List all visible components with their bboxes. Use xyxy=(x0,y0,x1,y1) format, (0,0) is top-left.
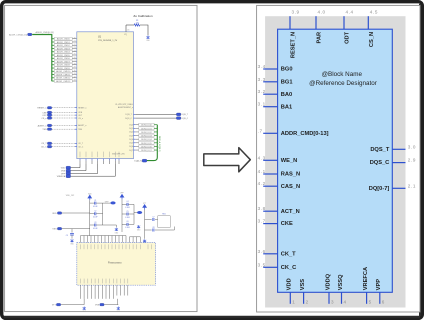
svg-text:Zo Calibration: Zo Calibration xyxy=(133,14,153,18)
svg-text:VDD_1V2: VDD_1V2 xyxy=(66,195,74,197)
wire VTT branch xyxy=(145,210,175,239)
svg-text:BA1: BA1 xyxy=(281,104,292,110)
pins U2 bottom stubs xyxy=(81,285,128,299)
svg-text:CAS_N: CAS_N xyxy=(281,184,300,190)
port DQ[0-7] xyxy=(134,159,146,162)
svg-text:DQ7: DQ7 xyxy=(129,150,133,152)
svg-text:0.1UF: 0.1UF xyxy=(125,217,130,219)
wire+port VPP (U1 bottom) xyxy=(61,164,98,175)
pin CKE (left) xyxy=(258,219,293,228)
wire U1 DQS_T to port xyxy=(125,113,188,116)
svg-text:C3: C3 xyxy=(94,222,96,224)
pin VPP (bottom) xyxy=(376,279,385,305)
svg-text:3.7: 3.7 xyxy=(258,219,266,224)
capacitor C7 xyxy=(152,216,154,221)
capacitor C5 xyxy=(125,211,130,219)
wire DDR4_DQ7 xyxy=(129,149,157,152)
rotated bottom pin names inside U1 xyxy=(80,152,119,158)
wire DDR4_DQ2 xyxy=(129,130,157,133)
op-amp/memory IC U1 (1TB_DDR4X8) xyxy=(77,32,134,159)
svg-text:ODT: ODT xyxy=(42,115,47,117)
svg-text:5: 5 xyxy=(369,300,372,305)
svg-text:VSS: VSS xyxy=(95,305,100,307)
svg-text:4.3: 4.3 xyxy=(258,155,266,160)
pin PAR (top) xyxy=(316,9,326,43)
port TEN and wire to U1 xyxy=(42,128,82,131)
wire U1 DQS_C to port xyxy=(125,117,188,120)
svg-text:C9: C9 xyxy=(66,235,68,237)
ground (bottom rail 2) xyxy=(117,307,121,314)
wire ADDR_CMD11 xyxy=(52,73,77,76)
wire DDR4_DQ6 xyxy=(129,145,157,148)
wire ADDR_CMD5 xyxy=(52,54,77,57)
svg-text:DDR_A_DQ[0-7]: DDR_A_DQ[0-7] xyxy=(158,136,161,152)
pin VDD (bottom) xyxy=(287,278,296,304)
svg-text:DDR4_DQ2: DDR4_DQ2 xyxy=(141,132,153,134)
svg-text:6: 6 xyxy=(382,300,385,305)
right panel xyxy=(257,5,420,312)
wire ladder-2 rails xyxy=(122,199,137,232)
svg-text:VDD: VDD xyxy=(61,168,66,170)
svg-text:DQS_T: DQS_T xyxy=(370,147,389,153)
svg-text:115: 115 xyxy=(127,29,130,31)
svg-text:DDR4_DQ0: DDR4_DQ0 xyxy=(141,125,153,127)
pin DQ[0-7] (right) xyxy=(369,183,416,192)
svg-text:4.4: 4.4 xyxy=(346,9,354,14)
svg-text:RESET_n: RESET_n xyxy=(78,108,86,110)
svg-text:CKE: CKE xyxy=(42,112,47,114)
port VPP (oval) xyxy=(105,201,116,204)
svg-text:TEN: TEN xyxy=(78,129,82,131)
svg-text:RESET_n: RESET_n xyxy=(37,108,47,110)
pin VREFCA (bottom) xyxy=(363,267,372,305)
svg-text:1: 1 xyxy=(292,300,295,305)
svg-text:TEN: TEN xyxy=(42,129,47,131)
pin DQS_C (right) xyxy=(370,158,416,167)
port CK_C and wire to U1 xyxy=(41,145,84,148)
wire ADDR_CMD0 xyxy=(52,37,77,40)
svg-text:CK_T: CK_T xyxy=(41,143,47,145)
wire DDR4_DQ4 xyxy=(129,138,157,141)
pins U1 bottom stubs xyxy=(80,159,119,164)
svg-text:DQS_T: DQS_T xyxy=(182,114,189,116)
svg-text:20: 20 xyxy=(74,37,76,39)
svg-text:VSS: VSS xyxy=(52,229,57,231)
wire ADDR_CMD10 xyxy=(52,70,77,73)
pin RAS_N (left) xyxy=(258,169,300,178)
capacitor C6 xyxy=(125,221,130,229)
pin CK_T (left) xyxy=(258,249,297,258)
svg-text:WE_N: WE_N xyxy=(281,158,297,164)
ground (ladder-1) xyxy=(115,228,119,235)
port ODT and wire to U1 xyxy=(42,114,83,117)
svg-text:DQS_C: DQS_C xyxy=(182,118,189,120)
port ADDR_CMD[0-13] (sheet input) xyxy=(9,33,32,36)
svg-text:C8: C8 xyxy=(152,227,154,229)
wire ADDR_CMD9 xyxy=(52,67,77,70)
power flag VTT xyxy=(143,203,147,210)
port VDD (decoupling, left) xyxy=(52,212,90,215)
svg-text:VSS: VSS xyxy=(61,171,66,173)
svg-text:BG0: BG0 xyxy=(281,67,293,73)
port VREF (oval) xyxy=(137,211,142,214)
rotated pin numbers inside U2 bottom xyxy=(81,279,128,284)
port VTT (bottom rail) xyxy=(52,299,84,307)
wire ADDR_CMD4 xyxy=(52,50,77,53)
capacitor C3 xyxy=(93,222,98,230)
svg-text:DQ6: DQ6 xyxy=(129,146,133,148)
block symbol @Block Name xyxy=(278,29,393,292)
rotated pin numbers inside U2 top xyxy=(81,244,152,249)
svg-text:CK_C: CK_C xyxy=(78,147,84,149)
svg-text:Pxxxxxxxxxx: Pxxxxxxxxxx xyxy=(108,261,122,264)
wire U1.ZQ to resistor xyxy=(126,24,134,26)
wire+port VDD (U1 bottom) xyxy=(61,164,80,170)
svg-text:VSSQ: VSSQ xyxy=(338,274,344,290)
port RESET_n and wire to U1 xyxy=(37,107,86,110)
svg-text:DQ[0-7]: DQ[0-7] xyxy=(134,161,142,163)
svg-text:0.1UF: 0.1UF xyxy=(93,206,98,208)
svg-text:ALERT_n: ALERT_n xyxy=(38,124,48,127)
svg-text:VTT: VTT xyxy=(143,203,146,205)
capacitor C8 xyxy=(152,227,154,232)
port VSS (decoupling, left) xyxy=(52,227,89,230)
svg-text:ADDR_CMD5: ADDR_CMD5 xyxy=(57,54,71,57)
svg-text:3.6: 3.6 xyxy=(258,249,266,254)
wire ADDR_CMD1 xyxy=(52,41,77,44)
svg-text:DQS_T: DQS_T xyxy=(125,114,132,116)
pin RESET_N (top) xyxy=(290,9,300,58)
svg-text:DQ2: DQ2 xyxy=(129,132,133,134)
wire green address bus xyxy=(32,35,52,82)
svg-text:ODT: ODT xyxy=(345,31,351,44)
svg-text:@Reference Designator: @Reference Designator xyxy=(309,80,377,87)
schematic sheet (gray) xyxy=(265,16,405,307)
svg-text:ADDR_CMD9: ADDR_CMD9 xyxy=(57,67,71,70)
svg-text:1TB_DDR4X8_1_2V: 1TB_DDR4X8_1_2V xyxy=(98,40,118,42)
svg-text:21: 21 xyxy=(74,41,76,43)
svg-text:CKE: CKE xyxy=(281,221,293,227)
wire DDR4_DQ1 xyxy=(129,127,157,130)
ground (Zo calibration) xyxy=(146,36,150,43)
port CS_n and wire to U1 xyxy=(41,117,83,120)
svg-text:3.0: 3.0 xyxy=(408,144,416,149)
svg-text:DDR4_DQ3: DDR4_DQ3 xyxy=(141,136,153,138)
pin VSS (bottom) xyxy=(300,279,309,305)
svg-text:ADDR_CMD[0-13]: ADDR_CMD[0-13] xyxy=(9,34,27,37)
svg-text:VL,VPD,VPP_STALL: VL,VPD,VPP_STALL xyxy=(115,103,133,106)
svg-text:28: 28 xyxy=(74,63,76,65)
svg-text:3: 3 xyxy=(331,300,334,305)
svg-text:ADDR_CMD[0-13]: ADDR_CMD[0-13] xyxy=(36,31,54,34)
pin DQS_T (right) xyxy=(370,144,416,153)
wire ADDR_CMD2 xyxy=(52,44,77,47)
svg-text:29: 29 xyxy=(74,67,76,69)
svg-text:31: 31 xyxy=(74,73,76,75)
svg-text:4.1: 4.1 xyxy=(258,169,266,174)
ground (VTT branch) xyxy=(143,239,147,246)
transformation arrow xyxy=(204,148,251,172)
svg-text:ADDR_CMD13: ADDR_CMD13 xyxy=(56,80,71,83)
svg-text:VDD: VDD xyxy=(52,213,57,215)
capacitor C1 xyxy=(93,200,98,208)
wire ADDR_CMD6 xyxy=(52,57,77,60)
wire ADDR_CMD3 xyxy=(52,47,77,50)
svg-text:CK_C: CK_C xyxy=(281,265,297,271)
resistor network box xyxy=(158,216,170,228)
left panel xyxy=(5,5,197,311)
svg-text:BA0: BA0 xyxy=(281,92,292,98)
svg-text:ADDR_CMD4: ADDR_CMD4 xyxy=(57,51,71,54)
svg-text:0.1UF: 0.1UF xyxy=(93,228,98,230)
wire DDR4_DQ3 xyxy=(129,134,157,137)
pin VSSQ (bottom) xyxy=(338,274,347,305)
resistor RZQ 240 ohm xyxy=(134,20,140,26)
svg-text:0.1UF: 0.1UF xyxy=(125,227,130,229)
svg-text:BG1: BG1 xyxy=(281,79,293,85)
svg-text:DQS_C: DQS_C xyxy=(125,118,132,120)
svg-text:ADDR_CMD10: ADDR_CMD10 xyxy=(56,70,71,73)
svg-text:3.4: 3.4 xyxy=(258,64,266,69)
svg-text:C2: C2 xyxy=(94,211,96,213)
wire+port VSS (U1 bottom) xyxy=(61,164,86,173)
capacitor C9 (left drop) xyxy=(71,229,73,233)
svg-text:VSS: VSS xyxy=(300,279,306,291)
svg-text:C7: C7 xyxy=(152,216,154,218)
wire ADDR_CMD12 xyxy=(52,76,77,79)
svg-text:PAR: PAR xyxy=(317,32,323,44)
svg-text:3.5: 3.5 xyxy=(258,262,266,267)
svg-text:26: 26 xyxy=(74,57,76,59)
svg-text:ADDR_CMD11: ADDR_CMD11 xyxy=(56,73,71,76)
svg-text:ALERT/EVENT_n: ALERT/EVENT_n xyxy=(118,106,133,109)
svg-text:DDR4_DQ6: DDR4_DQ6 xyxy=(141,146,153,148)
svg-text:DQ[0-7]: DQ[0-7] xyxy=(369,186,390,192)
svg-text:23: 23 xyxy=(74,47,76,49)
svg-text:2.9: 2.9 xyxy=(408,158,416,163)
svg-text:27: 27 xyxy=(74,60,76,62)
svg-text:240: 240 xyxy=(136,22,139,24)
svg-text:2.1: 2.1 xyxy=(408,183,416,188)
wire rail to U2 top pins xyxy=(81,235,127,237)
svg-text:33: 33 xyxy=(74,80,76,82)
svg-text:VDD: VDD xyxy=(287,278,293,290)
svg-text:ADDR_CMD[0-13]: ADDR_CMD[0-13] xyxy=(281,131,329,137)
svg-text:DDR4_DQ1: DDR4_DQ1 xyxy=(141,128,153,130)
svg-text:ADDR_CMD12: ADDR_CMD12 xyxy=(56,77,71,80)
wire ADDR_CMD7 xyxy=(52,60,77,63)
ground (bottom rail 1) xyxy=(82,307,86,314)
svg-text:CK_T: CK_T xyxy=(281,251,296,257)
svg-text:VPP: VPP xyxy=(376,279,382,291)
svg-text:DQ0: DQ0 xyxy=(129,125,133,127)
pin CK_C (left) xyxy=(258,262,297,271)
svg-text:3.1: 3.1 xyxy=(258,102,266,107)
svg-text:ADDR_CMD7: ADDR_CMD7 xyxy=(57,60,71,63)
svg-text:DQ4: DQ4 xyxy=(129,139,133,141)
wire ADDR_CMD8 xyxy=(52,63,77,66)
svg-text:VREFCA: VREFCA xyxy=(57,175,66,178)
svg-text:4: 4 xyxy=(344,300,347,305)
svg-text:30: 30 xyxy=(74,70,76,72)
svg-text:4.2: 4.2 xyxy=(258,181,266,186)
capacitor C2 xyxy=(93,211,98,219)
pin VDDQ (bottom) xyxy=(325,273,334,304)
svg-text:3.2: 3.2 xyxy=(258,89,266,94)
pin ADDR_CMD[0-13] (left) xyxy=(258,128,329,137)
svg-text:VDD,VPP_2V5: VDD,VPP_2V5 xyxy=(112,154,125,156)
svg-text:3.3: 3.3 xyxy=(258,77,266,82)
svg-text:VDDQ: VDDQ xyxy=(325,273,331,290)
svg-text:ADDR_CMD3: ADDR_CMD3 xyxy=(57,47,71,50)
ground (ladder-2) xyxy=(137,225,141,232)
svg-text:VREFCA: VREFCA xyxy=(363,267,369,290)
capacitor C4 xyxy=(125,201,130,209)
memory IC U2 (lower block) xyxy=(77,243,156,286)
svg-text:CS_n: CS_n xyxy=(41,118,47,120)
svg-text:C1: C1 xyxy=(94,200,96,202)
svg-text:C4: C4 xyxy=(126,201,128,203)
svg-text:.7: .7 xyxy=(258,128,263,133)
svg-text:0.1UF: 0.1UF xyxy=(93,217,98,219)
svg-text:ADDR_CMD8: ADDR_CMD8 xyxy=(57,64,71,67)
svg-text:ADDR_CMD1: ADDR_CMD1 xyxy=(57,41,71,44)
wire resistor to ground xyxy=(140,25,148,35)
svg-text:3.8: 3.8 xyxy=(258,206,266,211)
wire ADDR_CMD13 xyxy=(52,80,77,83)
svg-text:CS_N: CS_N xyxy=(369,32,375,47)
svg-text:RESET_N: RESET_N xyxy=(291,32,297,58)
wire green DQ bus xyxy=(147,125,158,161)
pin BA0 (left) xyxy=(258,89,293,98)
svg-text:C6: C6 xyxy=(126,221,128,223)
pin BG0 (left) xyxy=(258,64,293,73)
svg-text:ADDR_CMD0: ADDR_CMD0 xyxy=(57,38,71,41)
svg-text:0.1UF: 0.1UF xyxy=(125,207,130,209)
svg-text:DQ1: DQ1 xyxy=(129,128,133,130)
pin CAS_N (left) xyxy=(258,181,300,190)
port CK_T and wire to U1 xyxy=(41,142,84,145)
svg-text:22: 22 xyxy=(74,44,76,46)
svg-text:32: 32 xyxy=(74,76,76,78)
svg-text:ADDR_CMD2: ADDR_CMD2 xyxy=(57,44,71,47)
svg-text:3.9: 3.9 xyxy=(292,9,300,14)
pin BG1 (left) xyxy=(258,77,293,86)
svg-text:24: 24 xyxy=(74,50,76,52)
svg-text:4.5: 4.5 xyxy=(370,9,378,14)
svg-text:DDR4_DQ7: DDR4_DQ7 xyxy=(141,150,153,152)
svg-text:CK_C: CK_C xyxy=(41,147,47,149)
pin CS_N (top) xyxy=(368,9,378,47)
svg-text:ADDR_CMD6: ADDR_CMD6 xyxy=(57,57,71,60)
svg-text:CK_T: CK_T xyxy=(78,143,84,145)
port CKE and wire to U1 xyxy=(42,111,83,114)
pin BA1 (left) xyxy=(258,102,293,111)
svg-text:DQ5: DQ5 xyxy=(129,143,133,145)
svg-text:DQ3: DQ3 xyxy=(129,135,133,137)
port VSS (bottom rail 2) xyxy=(95,299,118,307)
svg-text:C5: C5 xyxy=(126,211,128,213)
wire+port VREFCA (U1 bottom) xyxy=(57,164,116,178)
port ALERT_n and wire to U1 xyxy=(38,124,87,127)
pin WE_N (left) xyxy=(258,155,298,164)
svg-text:@Block Name: @Block Name xyxy=(322,71,363,78)
svg-text:RN1: RN1 xyxy=(162,213,165,215)
pins U2 top stubs xyxy=(81,236,141,243)
power flag VDD xyxy=(88,194,92,201)
svg-text:DDR4_DQ4: DDR4_DQ4 xyxy=(141,139,153,141)
pin ZQ of U1 xyxy=(124,25,129,36)
svg-text:RAS_N: RAS_N xyxy=(281,172,300,178)
svg-text:25: 25 xyxy=(74,54,76,56)
pin ODT (top) xyxy=(344,9,354,44)
ground (C9) xyxy=(70,239,74,246)
svg-text:CS_n: CS_n xyxy=(78,118,83,120)
pin ACT_N (left) xyxy=(258,206,300,215)
wire DDR4_DQ0 xyxy=(129,123,157,126)
wire DDR4_DQ5 xyxy=(129,141,157,144)
svg-text:ALERT_n: ALERT_n xyxy=(78,124,86,127)
svg-text:DQS_C: DQS_C xyxy=(370,160,390,166)
svg-text:ACT_N: ACT_N xyxy=(281,209,300,215)
svg-text:4.0: 4.0 xyxy=(318,9,326,14)
svg-text:VPP: VPP xyxy=(61,173,66,175)
svg-text:2: 2 xyxy=(306,300,309,305)
power flag VPP xyxy=(120,193,124,200)
svg-text:DDR4_DQ5: DDR4_DQ5 xyxy=(141,143,153,145)
wire ladder-1 rails xyxy=(90,200,117,235)
